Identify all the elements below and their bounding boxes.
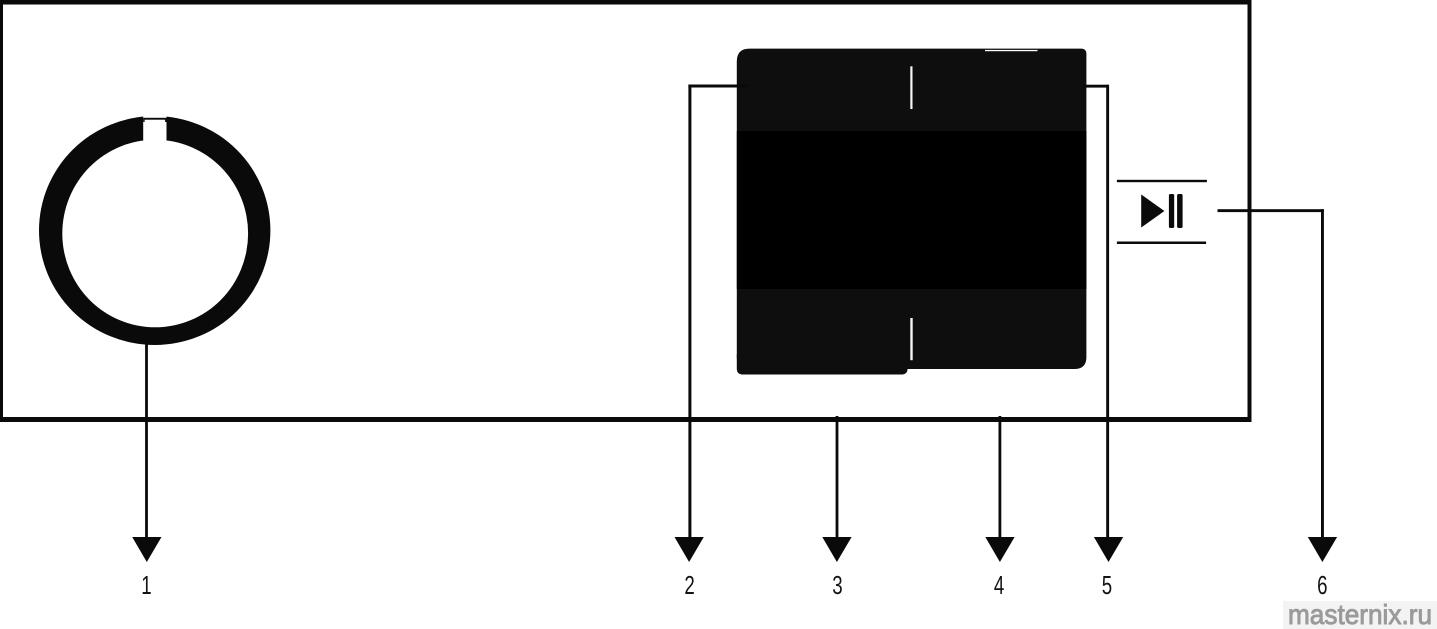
svg-text:5: 5 — [1102, 570, 1112, 600]
svg-text:6: 6 — [1317, 570, 1327, 600]
svg-text:4: 4 — [994, 570, 1004, 600]
svg-text:masternix.ru: masternix.ru — [1288, 599, 1432, 629]
svg-text:1: 1 — [141, 570, 151, 600]
svg-text:3: 3 — [832, 570, 842, 600]
svg-text:2: 2 — [684, 570, 694, 600]
